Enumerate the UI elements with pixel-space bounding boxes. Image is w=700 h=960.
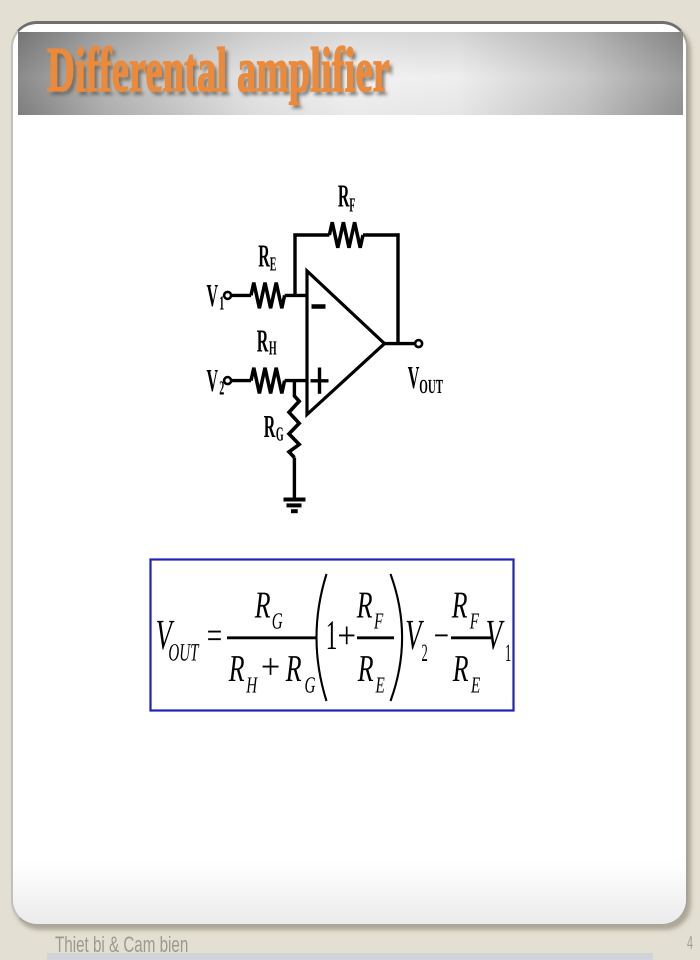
wire RH to non-inverting input — [285, 379, 308, 382]
svg-text:1: 1 — [505, 640, 511, 667]
svg-text:H: H — [269, 338, 277, 360]
ground — [284, 500, 306, 512]
svg-text:R: R — [338, 178, 350, 214]
svg-text:R: R — [254, 585, 270, 627]
formula 1 + — [326, 613, 356, 659]
svg-text:2: 2 — [422, 640, 428, 667]
svg-text:OUT: OUT — [168, 640, 199, 667]
svg-text:V: V — [408, 359, 420, 395]
wire V1 to RE — [232, 294, 251, 297]
svg-text:G: G — [305, 673, 316, 698]
wire V2 to RH — [232, 379, 251, 382]
wire feedback left leg — [293, 233, 296, 295]
formula fraction bar RF over RE (second) — [451, 636, 491, 639]
svg-text:G: G — [272, 609, 283, 634]
wire feedback right leg — [396, 233, 399, 343]
resistor RE — [251, 283, 285, 309]
formula V_OUT — [156, 612, 200, 667]
op-amp U1 — [307, 271, 385, 415]
resistor RH — [251, 368, 285, 394]
svg-text:2: 2 — [219, 378, 224, 400]
svg-text:F: F — [373, 609, 384, 634]
svg-text:1: 1 — [326, 613, 338, 659]
wire feedback top right segment — [363, 233, 400, 236]
bottom bar — [47, 953, 653, 960]
svg-text:R: R — [356, 585, 372, 627]
input terminal V1 — [224, 292, 231, 299]
formula denominator R_H + R_G — [228, 647, 316, 698]
title text — [47, 38, 390, 102]
page number — [687, 933, 693, 954]
resistor RF — [329, 222, 363, 248]
footer text — [55, 932, 188, 958]
formula denominator R_E second — [452, 648, 480, 698]
svg-text:R: R — [228, 648, 244, 690]
formula fraction bar RG over RH+RG — [227, 636, 316, 639]
svg-text:=: = — [205, 615, 223, 657]
label V2 — [207, 362, 225, 400]
wire RG to ground — [293, 458, 296, 500]
formula numerator R_G — [254, 585, 283, 634]
input terminal V2 — [224, 377, 231, 384]
formula fraction bar RF over RE (inside parens) — [357, 636, 394, 639]
label RF — [338, 178, 356, 217]
svg-text:R: R — [452, 648, 468, 690]
wire junction to RG — [293, 381, 296, 397]
svg-text:V: V — [486, 612, 505, 659]
svg-text:1: 1 — [219, 293, 224, 315]
svg-text:R: R — [451, 585, 467, 627]
svg-text:R: R — [285, 648, 301, 690]
svg-text:V: V — [207, 362, 219, 398]
plus sign (non-inverting input) — [311, 368, 329, 394]
svg-text:R: R — [257, 323, 269, 359]
resistor RG — [289, 396, 299, 458]
label RG — [264, 408, 284, 446]
svg-text:F: F — [469, 609, 480, 634]
formula box border — [151, 560, 514, 711]
formula numerator R_F second — [451, 585, 480, 634]
svg-text:E: E — [470, 673, 480, 698]
svg-text:+: + — [261, 647, 280, 687]
svg-text:V: V — [207, 277, 219, 313]
svg-text:H: H — [246, 673, 259, 698]
label VOUT — [408, 359, 444, 398]
formula denominator R_E — [357, 648, 385, 698]
wire RE to inverting input — [285, 294, 308, 297]
wire op-amp output — [383, 342, 415, 345]
svg-text:E: E — [375, 673, 385, 698]
label RE — [258, 237, 276, 275]
minus sign (inverting input) — [312, 304, 326, 309]
wire feedback top left segment — [293, 233, 329, 236]
title bar — [18, 32, 683, 115]
formula numerator R_F — [356, 585, 384, 634]
output terminal — [415, 340, 422, 347]
svg-text:R: R — [357, 648, 373, 690]
label V1 — [207, 277, 225, 315]
formula open parenthesis — [317, 574, 327, 701]
svg-text:R: R — [264, 408, 276, 444]
svg-text:OUT: OUT — [419, 376, 443, 398]
svg-text:+: + — [337, 615, 356, 657]
formula V_2 — [405, 612, 427, 667]
label RH — [257, 323, 277, 360]
svg-text:E: E — [270, 254, 277, 276]
formula V_1 — [486, 612, 511, 667]
formula close parenthesis — [391, 574, 403, 701]
svg-text:G: G — [276, 424, 284, 446]
svg-text:R: R — [258, 237, 270, 273]
svg-text:F: F — [349, 195, 355, 217]
svg-text:−: − — [434, 615, 449, 657]
